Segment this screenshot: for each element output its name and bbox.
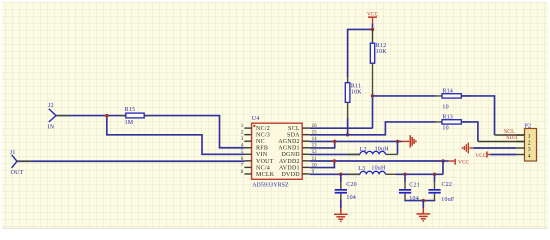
svg-text:P2: P2 — [525, 124, 532, 130]
svg-text:J1: J1 — [10, 150, 16, 156]
svg-text:IN: IN — [48, 125, 55, 131]
junction node C20 — [339, 173, 343, 177]
svg-text:DVDD: DVDD — [281, 172, 300, 178]
svg-text:RFB: RFB — [256, 146, 268, 152]
ground C20 (earth) — [334, 208, 348, 221]
svg-text:104: 104 — [346, 195, 356, 201]
svg-text:11: 11 — [312, 157, 317, 162]
svg-text:NC: NC — [256, 139, 265, 145]
junction node AVDD — [333, 159, 337, 163]
ic U4 AD5933 — [252, 116, 303, 189]
pin names U4 right — [278, 126, 300, 178]
wire P2 pin3 to ground — [473, 147, 516, 149]
junction node VCC — [371, 28, 375, 32]
wire C20 to ground — [340, 194, 342, 200]
svg-text:NC/3: NC/3 — [256, 133, 270, 139]
connector P2 — [516, 124, 536, 161]
power VCC P2 pin4 — [475, 152, 490, 160]
junction node AGND — [333, 140, 337, 144]
wire P2 pin4 to VCC — [490, 154, 516, 156]
power VCC top — [367, 11, 378, 23]
svg-text:16: 16 — [312, 124, 318, 129]
connector J1 — [10, 150, 24, 176]
wire VCC branch to R11 — [348, 29, 373, 77]
resistor R15 — [120, 107, 150, 126]
svg-text:13: 13 — [312, 144, 318, 149]
svg-text:R13: R13 — [442, 114, 453, 120]
resistor R12 — [370, 43, 387, 63]
svg-text:AGND1: AGND1 — [278, 146, 300, 152]
svg-text:10uH: 10uH — [375, 147, 390, 153]
svg-text:L3: L3 — [358, 166, 365, 172]
svg-text:R14: R14 — [442, 88, 453, 94]
wire R14 left lead — [373, 95, 436, 97]
capacitor C22 — [428, 174, 454, 203]
wire AGND2 pin14 — [310, 140, 402, 142]
wire OUT to VOUT pin6 — [17, 160, 244, 162]
svg-text:L2: L2 — [360, 147, 367, 153]
svg-text:AVDD1: AVDD1 — [279, 165, 300, 171]
junction node VCC tap — [441, 159, 445, 163]
wire AVDD1 pin10 riser — [310, 161, 335, 168]
wire R15 right to RFB pin4 — [144, 116, 244, 148]
wire L2 right riser — [397, 141, 399, 154]
wire R11 bottom to SDA line — [347, 102, 349, 118]
inductor L2 — [360, 147, 389, 155]
ground C21/C22 (earth) — [417, 208, 431, 221]
svg-text:C20: C20 — [346, 182, 357, 188]
wire VCC to R12 — [372, 29, 374, 43]
capacitor C20 — [335, 174, 357, 201]
resistor R14 — [442, 88, 461, 110]
ground P2 pin3 (left-pointing) — [462, 143, 473, 154]
svg-text:2: 2 — [528, 141, 531, 147]
pin stubs U4 right — [302, 128, 310, 174]
svg-text:10: 10 — [442, 126, 448, 132]
junction node SCL/R14 — [371, 94, 375, 98]
ground AGND (right-pointing) — [402, 135, 416, 147]
svg-text:MCLK: MCLK — [256, 172, 275, 178]
svg-text:AVDD2: AVDD2 — [279, 159, 300, 165]
capacitor C21 — [399, 174, 420, 202]
inductor L3 — [358, 165, 386, 174]
svg-text:SDA: SDA — [287, 133, 300, 139]
svg-text:NC/4: NC/4 — [256, 165, 270, 171]
junction node IN — [105, 114, 109, 118]
svg-text:1M: 1M — [125, 120, 134, 126]
wire AVDD2 pin11 — [310, 160, 443, 162]
svg-text:14: 14 — [312, 137, 318, 142]
svg-text:10: 10 — [312, 163, 318, 168]
svg-text:AD5933YRSZ: AD5933YRSZ — [252, 182, 289, 188]
junction node C21 — [403, 173, 407, 177]
junction node gnd2 — [422, 199, 426, 203]
power VCC right (AVDD) — [443, 159, 469, 166]
pin numbers U4 left — [241, 124, 244, 175]
wire C21-C22 bottoms — [405, 194, 435, 201]
svg-text:U4: U4 — [252, 116, 260, 122]
svg-text:10uH: 10uH — [371, 165, 386, 171]
svg-text:VCC: VCC — [458, 160, 469, 166]
wire VCC tap vertical — [442, 161, 444, 174]
svg-text:VIN: VIN — [256, 152, 268, 158]
svg-text:10uF: 10uF — [441, 197, 455, 203]
svg-text:15: 15 — [312, 131, 318, 136]
wire VCC stem — [372, 23, 374, 29]
wire DGND pin12 to L2 — [310, 153, 360, 155]
svg-text:AGND2: AGND2 — [278, 139, 300, 145]
wire R12 bottom to SCL line — [372, 63, 374, 96]
svg-text:10K: 10K — [376, 49, 387, 55]
connector J2 — [48, 103, 56, 131]
wire IN from J2 to R15 — [56, 115, 126, 117]
svg-text:VCC: VCC — [475, 153, 486, 159]
svg-text:J2: J2 — [48, 103, 54, 109]
svg-text:3: 3 — [528, 147, 531, 153]
junction node C22 — [433, 173, 437, 177]
svg-text:10: 10 — [442, 104, 448, 110]
pin numbers U4 right — [312, 124, 318, 175]
resistor R13 — [442, 114, 461, 131]
svg-text:NC/2: NC/2 — [256, 126, 270, 132]
junction node AGND/L2 — [396, 140, 400, 144]
wire R14 right to P2 pin1 — [461, 96, 494, 135]
wire SCL pin16 to R12 leg — [310, 127, 373, 129]
svg-text:1: 1 — [528, 134, 531, 140]
svg-text:SDA: SDA — [506, 135, 518, 141]
svg-text:VOUT: VOUT — [256, 159, 274, 165]
svg-text:C21: C21 — [409, 182, 420, 188]
pin stubs U4 left — [244, 128, 251, 174]
resistor R11 — [345, 83, 362, 103]
junction node SDA/R11 — [346, 133, 350, 137]
svg-text:R15: R15 — [125, 107, 136, 113]
pin names U4 left — [256, 126, 275, 178]
wire SDA pin15 to R13 — [310, 122, 436, 135]
svg-text:4: 4 — [528, 154, 531, 160]
wire gnd2 drop — [422, 201, 424, 208]
svg-text:10K: 10K — [351, 89, 362, 95]
wire R13 right to P2 pin2 — [461, 122, 478, 142]
svg-text:C22: C22 — [442, 182, 453, 188]
svg-text:DGND: DGND — [281, 152, 300, 158]
svg-text:SCL: SCL — [288, 126, 300, 132]
wire AGND1 pin13 riser — [310, 141, 335, 148]
wire L3 right to VCC tap — [386, 173, 397, 175]
svg-text:OUT: OUT — [11, 170, 24, 176]
svg-text:12: 12 — [312, 150, 318, 155]
wire J2 junction down to VIN pin5 — [107, 116, 245, 155]
wire DVDD pin9 to L3 — [310, 173, 360, 175]
